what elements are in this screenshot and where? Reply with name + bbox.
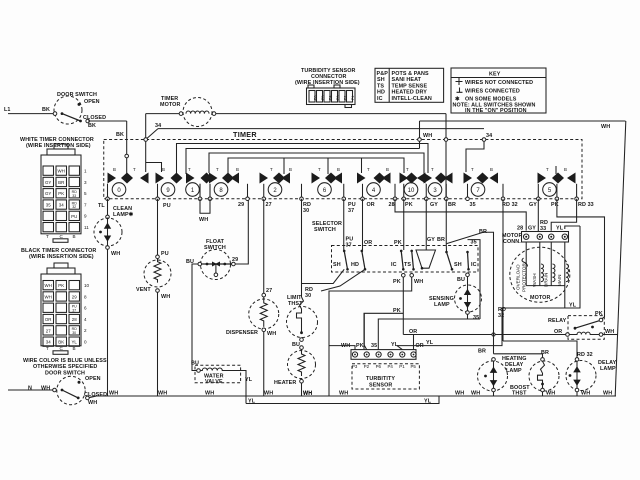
svg-text:CLOSED: CLOSED <box>83 115 106 121</box>
wire RD 33 <box>540 199 577 232</box>
svg-text:WH: WH <box>471 390 480 396</box>
svg-text:BR: BR <box>541 350 549 356</box>
svg-text:OVERLOAD: OVERLOAD <box>516 264 521 290</box>
svg-text:IN THE "ON" POSITION: IN THE "ON" POSITION <box>465 108 527 114</box>
svg-text:11: 11 <box>84 225 89 230</box>
svg-text:BK: BK <box>116 132 124 138</box>
svg-text:RELAY: RELAY <box>548 318 567 324</box>
svg-text:PK: PK <box>405 202 413 208</box>
svg-text:T: T <box>46 234 49 239</box>
svg-text:YL: YL <box>72 340 78 345</box>
svg-text:T: T <box>216 167 219 172</box>
svg-text:33: 33 <box>72 194 76 198</box>
wire YL <box>390 226 580 347</box>
turbidity sensor <box>329 313 424 389</box>
svg-text:MAIN: MAIN <box>557 275 562 286</box>
turbidity sensor connector (top) <box>295 68 360 108</box>
node L1 <box>4 107 54 114</box>
svg-text:PK: PK <box>393 308 401 314</box>
svg-text:GY: GY <box>528 226 536 232</box>
float switch <box>186 201 248 371</box>
svg-text:GY: GY <box>529 202 537 208</box>
svg-text:BR: BR <box>479 229 487 235</box>
wire timer motor right across top <box>216 113 446 115</box>
svg-text:MOTOR: MOTOR <box>160 102 180 108</box>
svg-text:YL: YL <box>424 399 432 405</box>
bottom door switch <box>8 371 107 407</box>
svg-text:DISPENSER: DISPENSER <box>226 330 258 336</box>
svg-text:28: 28 <box>389 202 395 208</box>
wire 35 <box>378 240 480 350</box>
svg-text:35: 35 <box>471 240 477 246</box>
svg-text:PU: PU <box>71 214 77 219</box>
svg-text:WH: WH <box>546 390 555 396</box>
clean lamp <box>94 199 134 396</box>
door switch top <box>53 92 106 129</box>
wire RD 30 / limit thermostat <box>287 199 318 348</box>
svg-text:10: 10 <box>84 283 90 288</box>
svg-text:(WIRE INSERTION SIDE): (WIRE INSERTION SIDE) <box>29 254 94 260</box>
svg-text:YL: YL <box>556 226 564 232</box>
svg-text:YL: YL <box>391 342 399 348</box>
svg-text:T: T <box>406 167 409 172</box>
svg-text:6: 6 <box>84 306 87 311</box>
svg-text:OR: OR <box>367 202 375 208</box>
svg-text:(WIRE INSERTION SIDE): (WIRE INSERTION SIDE) <box>295 80 360 86</box>
svg-text:T: T <box>270 167 273 172</box>
svg-text:WH: WH <box>109 390 118 396</box>
timer contact 10 <box>400 167 426 196</box>
SH switch 2 <box>445 244 447 252</box>
svg-text:TS: TS <box>404 262 411 268</box>
svg-text:29: 29 <box>72 294 77 299</box>
svg-text:WH: WH <box>45 294 52 299</box>
timer contact 2 <box>260 167 293 196</box>
svg-text:34: 34 <box>46 340 51 345</box>
relay <box>548 311 618 339</box>
svg-text:30: 30 <box>72 331 76 335</box>
svg-text:B: B <box>73 346 76 351</box>
svg-text:3: 3 <box>84 180 87 185</box>
svg-text:BK: BK <box>58 340 64 345</box>
wire 34 <box>146 123 493 140</box>
svg-text:WH: WH <box>88 400 97 406</box>
selector switch <box>312 199 478 272</box>
svg-text:28: 28 <box>517 226 523 232</box>
svg-text:HEATED DRY: HEATED DRY <box>392 90 428 96</box>
bottom WH bus <box>89 396 616 398</box>
svg-text:1: 1 <box>84 169 87 174</box>
svg-text:SH: SH <box>454 262 462 268</box>
svg-text:WIRES CONNECTED: WIRES CONNECTED <box>465 89 520 95</box>
vent <box>136 199 171 396</box>
svg-text:WH: WH <box>414 279 423 285</box>
svg-text:LAMP✱: LAMP✱ <box>113 212 134 218</box>
svg-text:WH: WH <box>581 390 590 396</box>
svg-text:WH: WH <box>158 390 167 396</box>
svg-text:HD: HD <box>351 262 359 268</box>
svg-text:B: B <box>386 167 389 172</box>
svg-text:SH: SH <box>377 77 385 83</box>
svg-text:TURBITITY: TURBITITY <box>366 376 395 382</box>
svg-text:T: T <box>46 346 49 351</box>
svg-text:SWITCH: SWITCH <box>314 227 336 233</box>
water valve <box>191 361 253 404</box>
svg-text:T: T <box>367 167 370 172</box>
svg-text:TIMER: TIMER <box>233 130 257 139</box>
svg-text:8: 8 <box>84 294 87 299</box>
svg-text:BR: BR <box>437 237 445 243</box>
timer contact 8 <box>209 167 239 196</box>
svg-text:BR: BR <box>448 202 456 208</box>
heater <box>274 346 316 397</box>
white timer connector grid <box>41 144 89 242</box>
svg-text:34: 34 <box>155 123 161 129</box>
svg-text:WIRES NOT CONNECTED: WIRES NOT CONNECTED <box>465 80 533 86</box>
svg-text:SWITCH: SWITCH <box>204 245 226 251</box>
boost thermostat <box>510 358 559 397</box>
svg-text:P2: P2 <box>364 364 370 369</box>
svg-text:OR: OR <box>554 329 562 335</box>
svg-text:SH: SH <box>333 262 341 268</box>
svg-text:B: B <box>337 167 340 172</box>
wire 28 timer to motor connector <box>395 199 526 231</box>
svg-text:LAMP: LAMP <box>506 368 522 374</box>
svg-text:B: B <box>236 167 239 172</box>
WH loop under timer <box>199 199 210 223</box>
timer contact 3 <box>424 167 453 196</box>
svg-text:37: 37 <box>346 243 352 249</box>
svg-text:P6: P6 <box>376 364 382 369</box>
svg-text:OR: OR <box>364 240 372 246</box>
svg-text:5: 5 <box>84 191 87 196</box>
svg-text:PK: PK <box>393 279 401 285</box>
svg-text:PU: PU <box>161 251 169 257</box>
svg-text:INTELL-CLEAN: INTELL-CLEAN <box>392 96 432 102</box>
svg-text:OPEN: OPEN <box>85 376 101 382</box>
sensing lamp <box>429 273 482 321</box>
bottom YL bus <box>246 396 439 405</box>
svg-text:30: 30 <box>305 293 311 299</box>
svg-text:PU: PU <box>163 203 171 209</box>
timer internal bus wiring <box>146 114 556 199</box>
svg-text:RD 32: RD 32 <box>577 352 593 358</box>
svg-text:WH: WH <box>339 390 348 396</box>
svg-text:BR: BR <box>58 180 64 185</box>
svg-text:✱: ✱ <box>455 97 460 103</box>
svg-text:P1: P1 <box>399 364 405 369</box>
svg-text:27: 27 <box>46 328 51 333</box>
svg-text:P&P: P&P <box>377 71 389 77</box>
wire BR down <box>446 229 549 358</box>
wire PK to relay <box>557 199 605 319</box>
svg-text:ON SOME MODELS: ON SOME MODELS <box>465 97 517 103</box>
svg-text:IC: IC <box>471 262 477 268</box>
svg-text:GY: GY <box>427 237 435 243</box>
svg-text:PK: PK <box>58 283 64 288</box>
svg-text:MOTOR: MOTOR <box>530 295 550 301</box>
wire RD 32 long <box>498 199 593 358</box>
timer contact 9 <box>156 167 183 196</box>
note wire color <box>23 358 107 370</box>
motor <box>510 242 570 308</box>
svg-text:4: 4 <box>84 317 87 322</box>
svg-text:VENT: VENT <box>136 287 151 293</box>
svg-text:27: 27 <box>266 288 272 294</box>
svg-text:B: B <box>73 234 76 239</box>
svg-text:34: 34 <box>486 133 492 139</box>
svg-text:WH: WH <box>267 331 276 337</box>
svg-text:P4: P4 <box>388 364 394 369</box>
TS switch <box>410 250 413 253</box>
svg-text:WH: WH <box>603 390 612 396</box>
svg-text:PK: PK <box>595 311 603 317</box>
svg-text:T: T <box>471 167 474 172</box>
motor connector <box>502 226 569 246</box>
svg-text:RD 32: RD 32 <box>502 202 518 208</box>
HD switch <box>361 250 364 253</box>
svg-text:WH: WH <box>601 124 610 130</box>
svg-text:KEY: KEY <box>489 72 501 78</box>
legend abbreviation box <box>375 68 444 102</box>
svg-text:WH: WH <box>58 169 65 174</box>
svg-text:OR: OR <box>409 329 417 335</box>
svg-text:PK: PK <box>394 240 402 246</box>
svg-text:DOOR SWITCH: DOOR SWITCH <box>45 371 85 377</box>
svg-text:GY: GY <box>430 202 438 208</box>
svg-text:2: 2 <box>84 328 87 333</box>
svg-text:27: 27 <box>266 202 272 208</box>
svg-text:N: N <box>28 386 32 392</box>
svg-text:VALVE: VALVE <box>205 379 223 385</box>
svg-text:37: 37 <box>72 308 76 312</box>
key box <box>451 68 546 114</box>
svg-text:GY: GY <box>45 180 51 185</box>
svg-text:PK: PK <box>58 191 64 196</box>
svg-text:34: 34 <box>59 203 64 208</box>
svg-text:LAMP: LAMP <box>434 302 450 308</box>
svg-text:IC: IC <box>391 262 397 268</box>
svg-text:TS: TS <box>377 83 384 89</box>
timer bottom terminal circles and stubs <box>106 184 579 201</box>
svg-text:T: T <box>546 167 549 172</box>
svg-text:28: 28 <box>72 317 77 322</box>
svg-text:WH: WH <box>423 133 432 139</box>
timer contact 0 <box>108 167 149 196</box>
svg-text:29: 29 <box>232 257 238 263</box>
wire GY to motor connector <box>537 199 539 231</box>
svg-text:BR: BR <box>478 349 486 355</box>
svg-text:GY: GY <box>45 191 51 196</box>
svg-text:P5: P5 <box>411 364 417 369</box>
svg-text:PROTECTOR: PROTECTOR <box>522 263 527 292</box>
timer contact 4 <box>357 167 391 196</box>
timer contact 1 <box>186 167 213 196</box>
svg-text:B: B <box>289 167 292 172</box>
svg-text:35: 35 <box>46 203 51 208</box>
selector lower wiring <box>302 269 424 396</box>
svg-text:WH: WH <box>111 251 120 257</box>
timer contact 7 <box>464 167 499 196</box>
svg-text:CONN.: CONN. <box>503 239 521 245</box>
svg-text:BK: BK <box>42 107 50 113</box>
svg-text:BU: BU <box>292 342 300 348</box>
svg-text:P3: P3 <box>352 364 358 369</box>
svg-text:LAMP: LAMP <box>600 366 616 372</box>
svg-text:TL: TL <box>98 203 105 209</box>
svg-text:WH: WH <box>205 390 214 396</box>
heating delay lamp <box>478 356 527 396</box>
svg-text:SENSOR: SENSOR <box>369 383 392 389</box>
svg-text:YL: YL <box>426 340 434 346</box>
svg-text:7: 7 <box>84 202 87 207</box>
svg-text:WH: WH <box>303 390 312 396</box>
svg-text:CLOSED: CLOSED <box>84 392 107 398</box>
svg-text:35: 35 <box>473 315 479 321</box>
svg-text:SANI HEAT: SANI HEAT <box>392 77 422 83</box>
timer dashed box <box>104 130 582 199</box>
svg-text:BK: BK <box>88 123 96 129</box>
timer contact 6 <box>312 167 343 196</box>
svg-text:BU: BU <box>457 277 465 283</box>
svg-text:P1: P1 <box>351 95 355 100</box>
svg-text:T: T <box>133 167 136 172</box>
svg-text:YL: YL <box>248 399 256 405</box>
svg-text:PK: PK <box>356 343 364 349</box>
svg-text:WH: WH <box>455 390 464 396</box>
svg-text:32: 32 <box>498 313 504 319</box>
svg-text:RD 33: RD 33 <box>578 202 594 208</box>
svg-text:OTHERWISE SPECIFIED: OTHERWISE SPECIFIED <box>33 364 97 370</box>
svg-text:TEMP SENSE: TEMP SENSE <box>392 83 428 89</box>
svg-text:WH: WH <box>41 386 50 392</box>
timer motor <box>160 96 216 127</box>
IC switch 2 <box>466 251 469 254</box>
wire WH top right <box>420 121 626 396</box>
svg-text:37: 37 <box>348 208 354 214</box>
black timer connector grid <box>41 263 90 354</box>
svg-text:B: B <box>113 167 116 172</box>
svg-text:YL: YL <box>569 303 577 309</box>
svg-text:HD: HD <box>377 90 385 96</box>
svg-text:32: 32 <box>72 205 76 209</box>
svg-text:T: T <box>431 167 434 172</box>
svg-text:IC: IC <box>377 96 383 102</box>
svg-text:9: 9 <box>84 214 87 219</box>
svg-text:POTS & PANS: POTS & PANS <box>392 71 430 77</box>
svg-text:PK: PK <box>551 202 559 208</box>
svg-text:B: B <box>490 167 493 172</box>
timer contact 5 <box>538 167 576 196</box>
svg-text:HEATER: HEATER <box>274 380 296 386</box>
svg-text:0: 0 <box>84 340 87 345</box>
svg-text:30: 30 <box>303 208 309 214</box>
svg-text:T: T <box>188 167 191 172</box>
svg-text:35: 35 <box>371 343 377 349</box>
svg-text:T: T <box>318 167 321 172</box>
SH switch <box>343 250 346 253</box>
svg-text:B: B <box>564 167 567 172</box>
svg-text:35: 35 <box>470 202 476 208</box>
svg-text:YL: YL <box>245 377 253 383</box>
svg-text:29: 29 <box>238 202 244 208</box>
svg-text:OR: OR <box>45 317 52 322</box>
wire timer motor left <box>146 114 179 172</box>
svg-text:10: 10 <box>408 188 415 194</box>
svg-text:L1: L1 <box>4 107 11 113</box>
svg-text:WH: WH <box>161 294 170 300</box>
GY quad switch <box>416 250 436 268</box>
svg-text:WH: WH <box>45 283 52 288</box>
svg-text:B: B <box>162 167 165 172</box>
wire BK door switch to timer contact 0 <box>88 121 129 177</box>
svg-text:OPEN: OPEN <box>84 99 100 105</box>
IC switch <box>400 250 403 253</box>
delay lamp <box>566 358 617 396</box>
wire OR to relay <box>403 329 565 336</box>
svg-text:WH: WH <box>264 390 273 396</box>
svg-text:DRAIN: DRAIN <box>544 273 549 287</box>
svg-text:WASH: WASH <box>532 273 537 287</box>
dispenser <box>226 199 279 396</box>
